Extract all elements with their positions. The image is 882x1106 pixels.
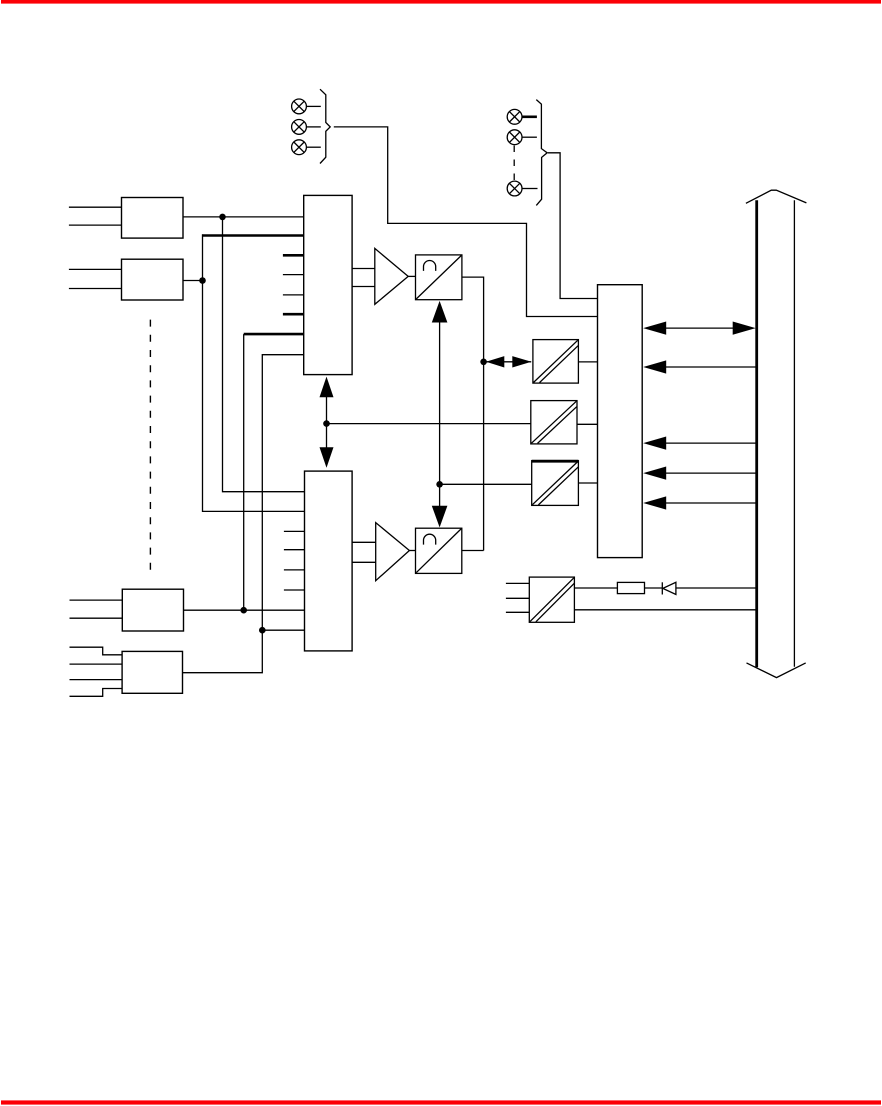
wire mux2 stub 4 — [284, 589, 305, 591]
wire lamp L1c stub — [306, 146, 320, 148]
arrow double horizontal dot F to isolator 1 — [486, 356, 531, 367]
wire mux1 to A1 upper — [352, 268, 375, 270]
wire box1 output to mux1 — [183, 216, 304, 218]
arrow bus to interface row5 — [643, 496, 757, 509]
wire dashed ellipsis between L2b and L2c — [513, 146, 515, 181]
arrow bus to interface row4 — [643, 467, 757, 480]
wire from node D into mux1 — [262, 355, 303, 631]
diode D1 — [662, 582, 676, 594]
wire lamp L1a stub — [306, 105, 320, 107]
wire bold from node C into mux1 — [244, 333, 304, 336]
wire power input c — [506, 611, 529, 613]
junction dot D — [259, 627, 266, 634]
wire mux1 stub 1 (bold) — [283, 254, 304, 257]
block mux lower (tall) — [305, 471, 353, 651]
amplifier A1 — [375, 248, 408, 304]
arrow bidirectional interface to bus row1 — [643, 322, 756, 335]
wire mux2 to A2 lower — [352, 561, 376, 563]
wire mux2 stub 3 — [284, 569, 305, 571]
wire box4 input a (stepped) — [70, 647, 123, 655]
arrowhead down into M2 — [432, 506, 448, 528]
bottom red rule — [1, 1100, 881, 1104]
brace lamp group 1 — [320, 89, 330, 163]
wire from dot E to isolator 2 — [327, 423, 531, 425]
wire A2 tip to modulator 2 — [409, 550, 415, 552]
wire box1 input a — [69, 206, 122, 208]
lamp L1a — [292, 99, 307, 114]
wire vertical from dot A to mux2 — [223, 217, 305, 492]
wire M1 output to vertical bus join — [462, 277, 484, 550]
lamp L2c — [507, 181, 522, 196]
arrow bus to interface row2 — [643, 360, 757, 373]
wire lamp L1b stub — [306, 126, 320, 128]
junction dot C — [240, 607, 247, 614]
wire box2 input a — [69, 268, 122, 270]
wire box4 input b — [70, 663, 123, 665]
wire box2 output — [183, 280, 203, 282]
arrow bus to interface row3 — [643, 437, 757, 450]
isolator power supply (striped) — [529, 577, 574, 622]
bus right rail — [793, 200, 795, 667]
wire dashed option divider — [149, 320, 151, 573]
wire box3 input b — [70, 617, 123, 619]
wire mux1 stub 3 — [283, 294, 304, 296]
wire mux2 stub 1 — [284, 530, 305, 532]
wire brace2 to interface block — [548, 153, 598, 299]
modulator M2 box — [416, 528, 462, 573]
isolator ISO3 (striped, bold top) — [532, 461, 579, 506]
junction dot G on sync line — [436, 481, 443, 488]
junction dot E on vertical arrow — [323, 420, 330, 427]
arrow double vertical between mux blocks — [320, 377, 334, 468]
wire fuse to diode — [645, 587, 663, 589]
wire lamp L2a stub (bold) — [522, 116, 537, 119]
wire power input b — [506, 597, 529, 599]
arrowhead up into M1 — [432, 301, 448, 323]
lamp L1c — [292, 140, 307, 155]
fuse F1 — [617, 582, 644, 593]
wire power output upper to fuse — [574, 587, 617, 589]
wire box2 input b — [69, 288, 122, 290]
wire node D into mux2 — [262, 629, 304, 631]
wire mux1 stub 2 — [283, 274, 304, 276]
wire mux1 to A1 lower — [352, 286, 375, 288]
wire M2 output up joining M1 output — [462, 550, 484, 552]
wire box3 input a — [70, 599, 123, 601]
wire power output lower to bus — [574, 609, 756, 611]
lamp L2a — [507, 109, 522, 124]
lamp L1b — [292, 120, 307, 135]
wire box4 output up to node D — [183, 630, 263, 673]
wire power input a — [506, 582, 529, 584]
wire box4 input c — [70, 679, 123, 681]
junction dot F on M-output vertical — [480, 359, 487, 366]
wire box1 input b — [69, 224, 122, 226]
wire A1 tip to modulator 1 — [408, 275, 415, 277]
wire box4 input d (stepped) — [70, 689, 123, 697]
isolator ISO2 (striped) — [531, 401, 577, 444]
wire mux2 stub 2 — [284, 549, 305, 551]
wire sync line between modulators — [439, 318, 441, 509]
wire ISO1 output to interface — [578, 361, 597, 363]
bus bottom chevron — [747, 663, 806, 678]
junction dot A — [219, 214, 226, 221]
block input option 4 — [122, 651, 182, 693]
block input option 3 — [122, 589, 183, 631]
junction dot B — [199, 277, 206, 284]
wire ISO3 output to interface — [578, 482, 597, 484]
wire vertical node C down to box3 net — [243, 334, 245, 610]
block interface (tall, right) — [598, 285, 643, 558]
amplifier A2 — [376, 523, 410, 581]
wire ISO2 output to interface — [577, 423, 598, 425]
wire lamp L2b stub — [522, 136, 537, 138]
block input option 1 (top-left) — [122, 198, 184, 239]
isolator ISO1 (striped) — [533, 340, 579, 384]
bus top chevron — [746, 190, 807, 203]
top red rule — [1, 0, 881, 4]
wire box3 output to mux2 — [184, 609, 305, 611]
wire dot G to isolator 3 — [440, 483, 532, 485]
block input option 2 — [122, 259, 184, 300]
wire mux1 stub 4 (bold) — [283, 313, 304, 316]
wire mux2 to A2 upper — [352, 541, 376, 543]
wire bold into mux1 (net of box2) — [203, 234, 304, 237]
brace lamp group 2 — [536, 100, 547, 206]
wire diode to bus — [676, 587, 757, 589]
wire lamp L2c stub — [522, 188, 538, 190]
lamp L2b — [507, 130, 522, 145]
modulator M1 box — [416, 255, 462, 300]
wire vertical net box2 to mux2 — [203, 234, 305, 511]
block mux upper (tall) — [304, 195, 352, 374]
bus left rail (bold) — [755, 200, 758, 667]
wire brace1 to interface block — [334, 127, 598, 317]
